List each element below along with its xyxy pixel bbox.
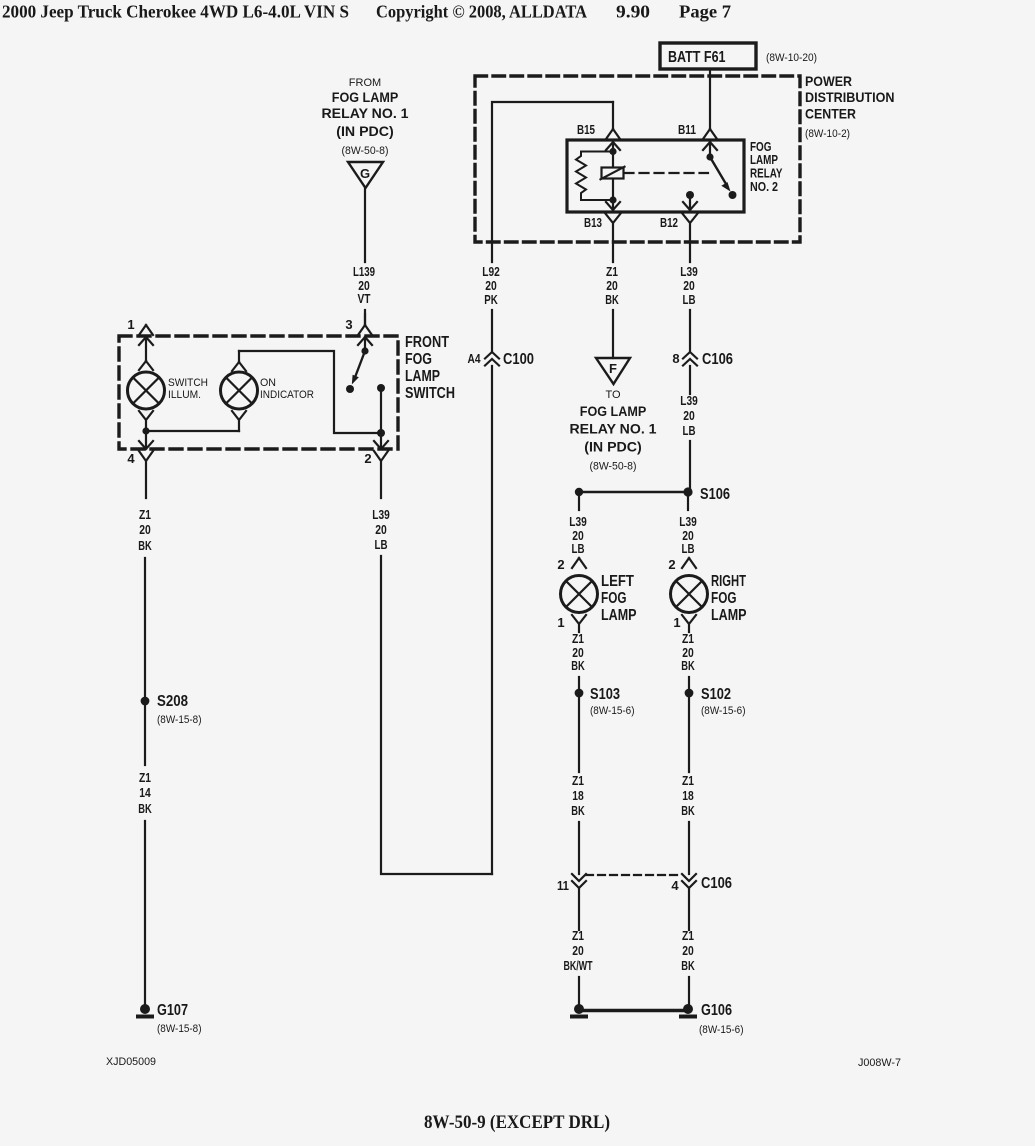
- wire label Z1 20 BK (left lamp): [571, 632, 585, 673]
- node B15 bottom junction: [609, 196, 616, 203]
- svg-text:BK: BK: [138, 802, 152, 816]
- svg-text:Z1: Z1: [139, 771, 151, 785]
- relay switch blade: [710, 157, 726, 184]
- svg-text:14: 14: [139, 786, 151, 800]
- svg-text:G: G: [360, 166, 370, 181]
- terminal 2 right lamp: [682, 558, 696, 568]
- label FOG LAMP RELAY NO. 2: [750, 140, 783, 194]
- switch blade: [356, 351, 366, 376]
- svg-text:Z1: Z1: [572, 929, 584, 943]
- wire to S103: [578, 677, 580, 689]
- node blade open contact: [346, 385, 354, 393]
- power distribution center dashed box: [475, 76, 800, 242]
- svg-text:FOG LAMP: FOG LAMP: [580, 404, 647, 419]
- svg-text:L39: L39: [569, 515, 587, 529]
- svg-text:(8W-15-8): (8W-15-8): [157, 714, 202, 726]
- wire contact to terminal 2: [380, 388, 382, 433]
- svg-text:CENTER: CENTER: [805, 106, 856, 122]
- label TO FOG LAMP RELAY NO.1: [570, 389, 658, 473]
- coil actuation dashed line: [625, 172, 709, 174]
- wire to G106 left: [578, 977, 580, 1004]
- node lamp common junction: [142, 427, 149, 434]
- svg-text:FRONT: FRONT: [405, 334, 449, 351]
- svg-text:Z1: Z1: [682, 929, 694, 943]
- svg-text:8: 8: [672, 351, 679, 366]
- svg-text:B15: B15: [577, 122, 595, 137]
- svg-text:20: 20: [682, 529, 694, 543]
- svg-text:20: 20: [358, 279, 370, 293]
- svg-text:LAMP: LAMP: [405, 368, 440, 385]
- wire label L92 20 PK: [482, 265, 500, 307]
- svg-text:FOG: FOG: [711, 590, 737, 607]
- relay box FOG LAMP RELAY NO.2: [567, 140, 744, 212]
- wire to S106: [689, 441, 691, 492]
- svg-text:FOG: FOG: [405, 351, 432, 368]
- wire label L39 20 LB (B12): [680, 265, 698, 307]
- wire S208 down: [144, 705, 146, 765]
- svg-text:BK: BK: [571, 659, 585, 673]
- wire t4 to S208: [144, 558, 146, 697]
- svg-text:20: 20: [139, 523, 151, 537]
- svg-text:L39: L39: [680, 265, 698, 279]
- label FROM FOG LAMP RELAY NO.1: [322, 77, 410, 157]
- node B11 pole: [706, 153, 713, 160]
- lamp SWITCH ILLUM: [139, 361, 153, 370]
- label FRONT FOG LAMP SWITCH: [405, 334, 455, 402]
- lamp ON INDICATOR: [232, 351, 246, 371]
- svg-text:FOG LAMP: FOG LAMP: [332, 90, 399, 105]
- lamp RIGHT FOG LAMP: [671, 576, 708, 613]
- wire below C106 right: [688, 888, 690, 930]
- splice S106 bus: [579, 491, 688, 494]
- svg-text:LAMP: LAMP: [750, 153, 778, 167]
- svg-text:B12: B12: [660, 215, 678, 230]
- svg-text:BK: BK: [138, 539, 152, 553]
- svg-text:Z1: Z1: [682, 632, 694, 646]
- node B12 contact: [686, 191, 694, 199]
- svg-text:B13: B13: [584, 215, 602, 230]
- svg-text:S103: S103: [590, 686, 620, 703]
- ground G107: [140, 1004, 150, 1014]
- node throw contact: [377, 384, 385, 392]
- terminal 1 left lamp: [572, 615, 586, 632]
- svg-text:XJD05009: XJD05009: [106, 1056, 156, 1068]
- svg-text:3: 3: [345, 317, 352, 332]
- svg-text:L139: L139: [353, 265, 375, 279]
- svg-text:4: 4: [671, 878, 679, 893]
- svg-text:BK: BK: [571, 804, 585, 818]
- svg-text:Copyright © 2008, ALLDATA: Copyright © 2008, ALLDATA: [376, 2, 587, 22]
- svg-text:ON: ON: [260, 377, 276, 389]
- terminal B15 connector: [606, 102, 620, 139]
- wire C106 down: [689, 366, 691, 394]
- wire L139 lower: [364, 310, 366, 325]
- header title: [2, 2, 731, 22]
- splice S102: [685, 689, 694, 698]
- svg-text:RELAY NO. 1: RELAY NO. 1: [570, 422, 658, 437]
- relay coil wire: [612, 152, 614, 201]
- svg-text:9.90: 9.90: [616, 2, 650, 22]
- off-page connector F: [596, 358, 630, 384]
- svg-text:1: 1: [673, 615, 680, 630]
- wire ON INDICATOR to switch node: [239, 351, 381, 433]
- svg-text:Z1: Z1: [682, 774, 694, 788]
- svg-text:BK: BK: [681, 659, 695, 673]
- svg-text:A4: A4: [468, 351, 482, 366]
- svg-text:BK/WT: BK/WT: [564, 959, 593, 973]
- svg-text:Z1: Z1: [606, 265, 618, 279]
- wire label Z1 20 BK (to G106): [681, 929, 695, 973]
- svg-text:(8W-50-8): (8W-50-8): [590, 461, 637, 473]
- svg-text:L39: L39: [372, 508, 390, 522]
- wire label Z1 20 BK (B13): [605, 265, 619, 307]
- svg-text:18: 18: [572, 789, 584, 803]
- svg-text:FOG: FOG: [601, 590, 627, 607]
- svg-text:(8W-15-8): (8W-15-8): [157, 1023, 202, 1035]
- svg-text:BK: BK: [681, 959, 695, 973]
- node switch pole 3: [361, 347, 368, 354]
- wire to G107: [144, 821, 146, 1004]
- svg-text:8W-50-9 (EXCEPT DRL): 8W-50-9 (EXCEPT DRL): [424, 1112, 610, 1133]
- ground G106 right: [683, 1004, 693, 1014]
- svg-text:20: 20: [572, 529, 584, 543]
- svg-text:20: 20: [572, 944, 584, 958]
- wire Z1 to F: [612, 310, 614, 358]
- connector C100: [485, 352, 499, 366]
- wire label L39 20 LB (below C106): [680, 394, 698, 438]
- svg-text:18: 18: [682, 789, 694, 803]
- svg-text:F: F: [609, 361, 617, 376]
- svg-text:1: 1: [557, 615, 564, 630]
- svg-text:L39: L39: [679, 515, 697, 529]
- wire label L39 20 LB (right lamp): [679, 515, 697, 556]
- svg-text:RELAY NO. 1: RELAY NO. 1: [322, 106, 410, 121]
- svg-text:(8W-15-6): (8W-15-6): [701, 705, 746, 717]
- svg-text:Z1: Z1: [139, 508, 151, 522]
- splice S208: [141, 697, 150, 706]
- svg-text:4: 4: [127, 451, 135, 466]
- svg-text:C100: C100: [503, 351, 534, 368]
- svg-text:LB: LB: [682, 542, 695, 556]
- wire label L139 20 VT: [353, 265, 375, 306]
- svg-text:(8W-50-8): (8W-50-8): [342, 145, 389, 157]
- wire label Z1 18 BK (right): [681, 774, 695, 818]
- terminal B13 connector: [606, 200, 620, 210]
- svg-text:POWER: POWER: [805, 73, 852, 89]
- svg-text:Z1: Z1: [572, 632, 584, 646]
- wire label Z1 20 BK/WT: [564, 929, 593, 973]
- label POWER DISTRIBUTION CENTER: [805, 73, 895, 140]
- wire BATT F61 to B11: [709, 69, 711, 128]
- wire lamp commons: [146, 430, 239, 432]
- wire L39 to C106: [689, 310, 691, 352]
- svg-text:(IN PDC): (IN PDC): [336, 124, 394, 139]
- wire C100 down: [491, 366, 493, 874]
- svg-text:20: 20: [683, 279, 695, 293]
- wire to G106 right: [688, 977, 690, 1004]
- svg-text:B11: B11: [678, 122, 696, 137]
- svg-text:ILLUM.: ILLUM.: [168, 389, 201, 401]
- wire to C106 lower left: [578, 822, 580, 874]
- svg-text:FOG: FOG: [750, 140, 772, 154]
- svg-text:C106: C106: [702, 351, 733, 368]
- svg-text:J008W-7: J008W-7: [858, 1057, 901, 1069]
- splice S103: [575, 689, 584, 698]
- svg-text:2: 2: [557, 557, 564, 572]
- wire to C106 lower right: [688, 822, 690, 874]
- node terminal 2 junction: [377, 429, 385, 437]
- ground G106 left: [574, 1004, 584, 1014]
- svg-text:INDICATOR: INDICATOR: [260, 389, 314, 401]
- svg-text:NO. 2: NO. 2: [750, 180, 778, 194]
- svg-text:VT: VT: [358, 292, 371, 306]
- svg-text:C106: C106: [701, 875, 732, 892]
- front fog lamp switch dashed box: [119, 336, 398, 449]
- svg-text:PK: PK: [484, 293, 498, 307]
- svg-text:DISTRIBUTION: DISTRIBUTION: [805, 89, 895, 105]
- svg-text:S106: S106: [700, 486, 730, 503]
- svg-text:20: 20: [375, 523, 387, 537]
- wire S106 to left lamp: [578, 496, 580, 510]
- svg-text:LB: LB: [375, 538, 388, 552]
- svg-text:SWITCH: SWITCH: [405, 385, 455, 402]
- svg-text:(IN PDC): (IN PDC): [584, 440, 642, 455]
- terminal 2 left lamp: [572, 558, 586, 568]
- svg-text:BK: BK: [681, 804, 695, 818]
- svg-text:SWITCH: SWITCH: [168, 377, 208, 389]
- svg-text:(8W-10-2): (8W-10-2): [805, 128, 850, 140]
- terminal B11 connector: [703, 129, 717, 139]
- ground bus G106: [579, 1009, 688, 1013]
- svg-text:L92: L92: [482, 265, 500, 279]
- wire L139: [364, 188, 366, 262]
- wire L92 to C100: [491, 310, 493, 352]
- terminal 1 connector: [139, 325, 153, 335]
- wire L92 feed inside PDC: [492, 102, 613, 262]
- wire label Z1 20 BK (switch t4): [138, 508, 152, 553]
- svg-text:G107: G107: [157, 1002, 188, 1019]
- wire label L39 20 LB (switch t2): [372, 508, 390, 552]
- svg-text:RIGHT: RIGHT: [711, 573, 746, 590]
- svg-text:20: 20: [682, 944, 694, 958]
- svg-text:(8W-10-20): (8W-10-20): [766, 52, 817, 64]
- svg-text:LAMP: LAMP: [601, 607, 637, 624]
- svg-text:11: 11: [557, 878, 569, 893]
- svg-text:(8W-15-6): (8W-15-6): [699, 1024, 744, 1036]
- connector C106 lower left: [572, 874, 586, 888]
- connector C106 lower right: [682, 874, 696, 888]
- svg-text:(8W-15-6): (8W-15-6): [590, 705, 635, 717]
- terminal 4 connector: [139, 431, 153, 449]
- wire t2 to L92 riser: [381, 556, 492, 874]
- svg-text:20: 20: [606, 279, 618, 293]
- svg-text:LB: LB: [572, 542, 585, 556]
- wire to S102: [688, 677, 690, 689]
- node B15 top junction: [609, 148, 616, 155]
- fuse BATT F61: [660, 43, 756, 69]
- node blade contact: [729, 191, 737, 199]
- wire label Z1 14 BK: [138, 771, 152, 816]
- svg-text:20: 20: [683, 409, 695, 423]
- svg-text:S102: S102: [701, 686, 731, 703]
- svg-text:G106: G106: [701, 1002, 732, 1019]
- svg-text:LEFT: LEFT: [601, 573, 634, 590]
- connector C106 top: [683, 352, 697, 366]
- svg-text:Z1: Z1: [572, 774, 584, 788]
- wire label L39 20 LB (left lamp): [569, 515, 587, 556]
- terminal B12 connector: [683, 195, 697, 210]
- svg-text:LB: LB: [683, 293, 696, 307]
- wire S102 down: [688, 697, 690, 772]
- svg-text:TO: TO: [605, 389, 621, 401]
- svg-text:BK: BK: [605, 293, 619, 307]
- terminal 1 right lamp: [682, 615, 696, 632]
- svg-text:LB: LB: [683, 424, 696, 438]
- terminal 3 connector: [358, 314, 372, 335]
- lamp LEFT FOG LAMP: [561, 576, 598, 613]
- svg-text:2: 2: [668, 557, 675, 572]
- wire label Z1 20 BK (right lamp): [681, 632, 695, 673]
- svg-text:S208: S208: [157, 693, 188, 710]
- svg-text:LAMP: LAMP: [711, 607, 747, 624]
- off-page connector G: [348, 162, 383, 188]
- svg-text:20: 20: [485, 279, 497, 293]
- svg-text:L39: L39: [680, 394, 698, 408]
- svg-text:Page 7: Page 7: [679, 2, 731, 22]
- wire S106 to right lamp: [687, 496, 689, 510]
- svg-text:2000 Jeep Truck Cherokee 4WD L: 2000 Jeep Truck Cherokee 4WD L6-4.0L VIN…: [2, 2, 349, 22]
- svg-text:20: 20: [682, 646, 694, 660]
- svg-text:FROM: FROM: [349, 77, 381, 89]
- svg-text:2: 2: [364, 451, 371, 466]
- svg-text:RELAY: RELAY: [750, 167, 783, 181]
- connector C106 dashed link: [586, 874, 681, 876]
- terminal 2 connector: [374, 433, 388, 449]
- svg-text:20: 20: [572, 646, 584, 660]
- relay coil K1: [602, 168, 624, 179]
- svg-text:1: 1: [127, 317, 134, 332]
- wire label Z1 18 BK (left): [571, 774, 585, 818]
- wire S103 down: [578, 697, 580, 772]
- svg-text:BATT F61: BATT F61: [668, 49, 726, 66]
- resistor inside relay: [576, 152, 613, 201]
- wire below C106 left: [578, 888, 580, 930]
